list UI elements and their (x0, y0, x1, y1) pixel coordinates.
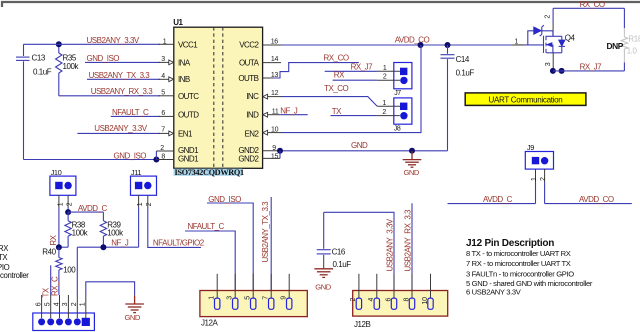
svg-text:GND: GND (404, 168, 420, 177)
node RX_J7 junction left (550, 68, 556, 74)
svg-text:NF_J: NF_J (280, 107, 298, 116)
svg-text:RX_CO: RX_CO (580, 0, 605, 9)
svg-text:1: 1 (137, 202, 144, 206)
svg-text:TX: TX (42, 287, 51, 297)
wire TX to J8 pin2 (331, 107, 400, 116)
svg-text:3 FAULTn - to microcontroller: 3 FAULTn - to microcontroller GPIO (466, 269, 574, 278)
svg-text:10: 10 (422, 297, 429, 305)
pin 15 GND2 (238, 153, 280, 163)
label cut text left edge (0, 244, 29, 280)
svg-text:GND_ISO: GND_ISO (87, 54, 120, 63)
connector J7 (394, 63, 412, 98)
svg-text:GND_ISO: GND_ISO (114, 151, 147, 160)
node RX junction (56, 244, 62, 250)
svg-text:16: 16 (271, 38, 279, 45)
svg-text:3: 3 (227, 296, 234, 300)
op-amp U1 ISO7342 body (173, 18, 262, 168)
svg-text:GND1: GND1 (178, 154, 199, 163)
wire RX_CO top right (553, 0, 624, 9)
svg-text:7 RX - to microcontroller UART: 7 RX - to microcontroller UART TX (466, 259, 571, 268)
svg-text:6: 6 (385, 298, 392, 302)
resistor R40 (42, 247, 76, 295)
svg-text:100k: 100k (63, 62, 80, 71)
wire J9 pin2 to AVDD_CO (540, 169, 547, 204)
svg-text:2: 2 (382, 109, 386, 116)
wire AVDD_C stub (448, 195, 536, 204)
svg-text:1: 1 (383, 65, 387, 72)
wire RX_CO from OUTB (staircase) (273, 54, 359, 78)
svg-text:6: 6 (161, 110, 165, 117)
wire pin1 to GND (86, 282, 135, 296)
wire GND_ISO to GND1 (24, 151, 157, 160)
svg-text:GND2: GND2 (238, 154, 259, 163)
svg-text:TX: TX (0, 253, 8, 262)
wire NF_J stub at IND (280, 107, 308, 116)
ground GND symbol bottom left (125, 295, 144, 322)
svg-text:1: 1 (163, 38, 167, 45)
wire USB2ANY_RX_3.3 to J12B pin8 (403, 203, 412, 298)
ground GND symbol near J8 (403, 151, 422, 177)
wire RX_J7 to J7 pin1 (325, 62, 400, 72)
wire R38 bottom to RX node (59, 246, 68, 248)
svg-text:J12 Pin Description: J12 Pin Description (466, 238, 554, 249)
svg-text:2: 2 (146, 202, 153, 206)
svg-text:8: 8 (161, 154, 165, 161)
svg-text:6 USB2ANY 3.3V: 6 USB2ANY 3.3V (466, 287, 522, 296)
resistor R35 (56, 44, 80, 96)
ground GND symbol at C16 (314, 269, 333, 292)
sheet top border (2, 2, 640, 7)
svg-text:INA: INA (178, 58, 191, 67)
wire GND2 pin15 jog (279, 151, 281, 159)
wire GND1 pin2 jog (155, 151, 157, 160)
svg-text:OUTA: OUTA (239, 58, 260, 67)
svg-text:INB: INB (178, 75, 190, 84)
svg-text:VCC1: VCC1 (178, 40, 198, 49)
pin 2 GND1 (156, 145, 199, 155)
svg-text:USB2ANY_3.3V: USB2ANY_3.3V (87, 36, 140, 45)
wire Q4 source lead (545, 53, 553, 71)
wire USB2ANY_TX_3.3 to J12A pin7 (261, 197, 271, 298)
wire NFAULT_C to J12A pin3 (185, 222, 235, 298)
svg-text:NFAULT_C: NFAULT_C (112, 108, 149, 117)
svg-text:3: 3 (161, 56, 165, 63)
svg-text:GND: GND (125, 313, 141, 322)
wire GND_ISO to INA (85, 54, 160, 63)
svg-text:USB2ANY_TX_3.3: USB2ANY_TX_3.3 (89, 71, 151, 80)
svg-text:100k: 100k (107, 228, 124, 237)
wire J9 pin1 to AVDD_C (531, 169, 538, 204)
node GND1 junction (153, 157, 159, 163)
svg-text:C14: C14 (456, 55, 470, 64)
svg-text:OUTB: OUTB (238, 74, 258, 83)
svg-text:J7: J7 (394, 90, 401, 97)
pin 6 OUTD (159, 110, 200, 120)
svg-text:2: 2 (67, 202, 74, 206)
connector J12A (200, 291, 307, 328)
svg-text:EN2: EN2 (244, 130, 259, 139)
svg-text:2: 2 (350, 298, 357, 302)
wire J10 pin1 to RX node (57, 195, 64, 247)
svg-text:3: 3 (545, 62, 552, 66)
wire AVDD_CO stub (545, 195, 632, 204)
wire Q4 drain riser (544, 8, 553, 36)
pin 10 EN2 (244, 126, 281, 138)
svg-text:AVDD_CO: AVDD_CO (579, 195, 614, 204)
svg-text:VCC2: VCC2 (239, 40, 259, 49)
svg-text:2: 2 (540, 177, 547, 181)
svg-text:100: 100 (63, 265, 76, 274)
svg-text:USB2ANY_RX_3.3: USB2ANY_RX_3.3 (403, 209, 412, 272)
svg-text:USB2ANY_TX_3.3: USB2ANY_TX_3.3 (261, 201, 270, 263)
wire GND_ISO to J12A pin5 (207, 195, 253, 298)
svg-text:0.1uF: 0.1uF (33, 68, 52, 77)
pin 11 IND (246, 108, 280, 119)
label UART Communication banner (465, 93, 586, 106)
svg-text:100k: 100k (72, 228, 89, 237)
svg-text:NF_J: NF_J (111, 238, 129, 247)
svg-text:RX_CO: RX_CO (324, 54, 349, 63)
wire J11 pin1 to NF_J (137, 195, 144, 247)
svg-text:7: 7 (161, 126, 165, 133)
wire TX_CO to J8 pin1 (281, 84, 400, 107)
pin 7 EN1 (159, 126, 194, 138)
svg-text:TX: TX (332, 107, 342, 116)
svg-text:9: 9 (272, 145, 276, 152)
svg-text:0.1uF: 0.1uF (456, 68, 475, 77)
svg-text:0.1uF: 0.1uF (333, 260, 352, 269)
svg-text:TX_CO: TX_CO (324, 84, 348, 93)
svg-text:UART Communication: UART Communication (489, 95, 563, 104)
svg-text:1: 1 (80, 302, 87, 306)
svg-text:C13: C13 (32, 54, 46, 63)
pin 5 OUTC (159, 90, 200, 101)
svg-text:U1: U1 (173, 18, 183, 27)
svg-text:Q4: Q4 (565, 34, 576, 43)
svg-text:J12B: J12B (354, 320, 371, 329)
wire J10 pin2 to AVDD_C node (67, 195, 74, 212)
svg-text:8 TX - to microcontroller UART: 8 TX - to microcontroller UART RX (466, 249, 571, 258)
pin 14 OUTA (239, 56, 281, 67)
svg-text:RX: RX (49, 234, 58, 245)
svg-text:1: 1 (531, 177, 538, 181)
svg-text:USB2ANY_RX_3.3: USB2ANY_RX_3.3 (91, 87, 154, 96)
connector J14 bottom left (33, 313, 95, 331)
svg-text:5: 5 (161, 90, 165, 97)
connector J8 (394, 98, 412, 132)
wire J11 pin2 to NFAULT/GPIO2 (146, 195, 205, 247)
svg-text:RX: RX (334, 71, 345, 80)
resistor R18 DNP (607, 8, 640, 71)
svg-text:2: 2 (71, 302, 78, 306)
svg-text:7: 7 (263, 296, 270, 300)
node GND junction at symbol (409, 148, 415, 154)
svg-text:4: 4 (161, 73, 165, 80)
svg-text:4: 4 (368, 298, 375, 302)
wire USB2ANY_TX_3.3 to INB (87, 71, 160, 80)
svg-text:ISO7342CQDWRQ1: ISO7342CQDWRQ1 (175, 168, 245, 177)
wire NF_J drop to pin2 (76, 247, 78, 295)
connector J11 (131, 168, 157, 195)
wire NFAULT_C to OUTD (111, 108, 160, 117)
svg-text:INC: INC (246, 92, 259, 101)
wire USB2ANY_3.3V to VCC1 (24, 36, 161, 45)
svg-text:AVDD_C: AVDD_C (78, 204, 108, 213)
svg-text:RX: RX (0, 244, 9, 253)
pin 3 INA (159, 56, 191, 67)
node GND2 junction (277, 148, 283, 154)
svg-text:6: 6 (35, 302, 42, 306)
svg-text:10: 10 (271, 126, 279, 133)
pads J12B (350, 274, 433, 310)
svg-text:IND: IND (246, 111, 259, 120)
svg-text:1: 1 (382, 100, 386, 107)
node AVDD_CO junction at C14 (445, 42, 451, 48)
svg-text:1: 1 (209, 296, 216, 300)
pin 12 INC (246, 90, 281, 101)
wire RX_J7 at Q4 (553, 62, 625, 71)
resistor R39 (100, 212, 124, 247)
pin 4 INB (159, 73, 190, 84)
node RX_J7 junction right (559, 68, 565, 74)
svg-text:5: 5 (245, 296, 252, 300)
svg-text:2: 2 (160, 145, 164, 152)
svg-text:12: 12 (271, 90, 279, 97)
pin 1 VCC1 (159, 38, 199, 49)
svg-text:8: 8 (403, 298, 410, 302)
svg-text:2: 2 (544, 15, 551, 19)
wire AVDD_CO rail from VCC2 to Q4 gate (282, 36, 525, 46)
svg-text:R18: R18 (628, 35, 640, 44)
svg-text:9: 9 (281, 296, 288, 300)
svg-text:EN1: EN1 (178, 130, 193, 139)
pin 8 GND1 (156, 154, 199, 164)
wire NF_J (77, 238, 138, 247)
svg-text:3: 3 (62, 302, 69, 306)
U1 value ISO7342CQDWRQ1 (174, 168, 245, 177)
svg-text:J11: J11 (131, 168, 141, 177)
pin 9 GND2 (238, 145, 280, 155)
svg-text:J10: J10 (51, 168, 62, 177)
resistor R38 (65, 212, 89, 247)
svg-text:15: 15 (271, 153, 279, 160)
svg-text:J12A: J12A (201, 319, 219, 328)
wire GND2 to GND (280, 141, 448, 151)
svg-text:NFAULT_C: NFAULT_C (188, 222, 225, 231)
pin 16 VCC2 (239, 38, 282, 49)
node AVDD_C junction (65, 209, 71, 215)
svg-text:OUTD: OUTD (178, 111, 199, 120)
svg-text:2: 2 (383, 74, 387, 81)
connector J12B (353, 291, 448, 329)
svg-text:J8: J8 (394, 125, 401, 132)
capacitor C16 (317, 212, 352, 269)
wire USB2ANY_RX_3.3 to OUTC (59, 87, 160, 96)
wire RX to J7 pin2 (333, 71, 400, 81)
svg-text:4: 4 (53, 302, 60, 306)
svg-text:ocontroller: ocontroller (0, 271, 29, 280)
svg-text:J9: J9 (527, 143, 534, 152)
svg-text:DNP: DNP (607, 41, 624, 51)
svg-text:14: 14 (271, 56, 279, 63)
svg-text:AVDD_C: AVDD_C (483, 195, 513, 204)
svg-text:C16: C16 (332, 247, 346, 256)
wire USB2ANY_3.3V to EN1 (77, 124, 160, 133)
svg-text:1: 1 (515, 38, 519, 45)
svg-text:GND: GND (315, 283, 331, 292)
svg-text:5: 5 (45, 302, 52, 306)
svg-text:NFAULT/GPIO2: NFAULT/GPIO2 (153, 239, 205, 248)
node NF_J junction (100, 244, 106, 250)
label J12 Pin Description (466, 238, 593, 296)
svg-text:R40: R40 (42, 247, 56, 256)
pads J12A (209, 274, 292, 310)
svg-text:USB2ANY_3.3V: USB2ANY_3.3V (385, 218, 394, 271)
svg-text:1.0: 1.0 (627, 47, 638, 56)
svg-text:GND_ISO: GND_ISO (208, 195, 241, 204)
wire AVDD_C crossbar (68, 204, 107, 213)
pin 13 OUTB (238, 72, 278, 83)
svg-text:GND: GND (351, 141, 368, 150)
pin stubs J14 (35, 295, 86, 318)
wire TX from pin5 (42, 265, 51, 297)
svg-text:11: 11 (272, 108, 279, 115)
node AVDD_CO junction at EN2 riser (418, 42, 424, 48)
svg-text:OUTC: OUTC (178, 92, 199, 101)
capacitor C14 (441, 45, 475, 151)
svg-text:RX_J7: RX_J7 (351, 62, 374, 71)
svg-text:RX_J7: RX_J7 (580, 62, 603, 71)
svg-text:RX_C: RX_C (51, 276, 60, 296)
wire EN2 to AVDD_CO (281, 45, 421, 133)
svg-text:AVDD_CO: AVDD_CO (395, 36, 430, 45)
node USB2ANY_3.3V junction (56, 41, 62, 47)
transistor Q4 (515, 25, 575, 53)
wire USB2ANY_3.3V to J12B pin6 (324, 212, 395, 298)
connector J9 (525, 143, 553, 169)
connector J10 (50, 168, 76, 195)
svg-text:1: 1 (57, 202, 64, 206)
capacitor C13 (16, 44, 52, 159)
svg-text:USB2ANY_3.3V: USB2ANY_3.3V (94, 124, 147, 133)
